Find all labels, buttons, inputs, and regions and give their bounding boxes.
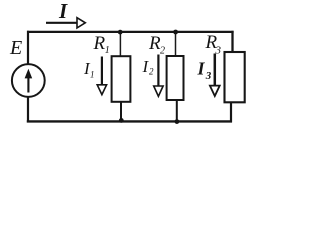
- label I1: [83, 59, 95, 80]
- wire: R2 bottom stub: [176, 100, 178, 123]
- wire: R3 bottom stub: [230, 101, 232, 122]
- junction dot: top of R1 branch: [118, 30, 123, 35]
- svg-text:2: 2: [160, 46, 165, 57]
- wire: right vertical top stub: [231, 31, 233, 53]
- label R2: [148, 33, 165, 57]
- resistor R2: [167, 56, 184, 100]
- label R1: [93, 33, 110, 56]
- resistor R3: [225, 52, 245, 102]
- voltage source E circle: [12, 64, 45, 97]
- current I1 arrow: [97, 57, 106, 95]
- svg-text:I: I: [58, 0, 68, 23]
- svg-text:R: R: [93, 33, 106, 54]
- current I arrow: [46, 18, 85, 28]
- svg-text:3: 3: [205, 70, 212, 82]
- label R3: [205, 32, 222, 57]
- svg-text:1: 1: [105, 45, 110, 56]
- wire: R1 top stub: [119, 31, 121, 57]
- wire: top horizontal: [27, 31, 234, 33]
- wire: left vertical: [27, 31, 29, 123]
- wire: bottom horizontal: [27, 120, 232, 122]
- svg-text:2: 2: [149, 67, 154, 77]
- wire: R2 top stub: [175, 31, 177, 57]
- wire: R1 bottom stub: [120, 102, 122, 122]
- label I3: [197, 59, 212, 83]
- svg-text:1: 1: [90, 70, 95, 80]
- svg-text:E: E: [9, 37, 22, 59]
- current I3 arrow: [210, 54, 220, 97]
- current I2 arrow: [154, 55, 163, 97]
- junction dot: bottom of R2 branch: [175, 119, 180, 124]
- label I2: [142, 57, 155, 77]
- voltage source E arrow: [25, 69, 33, 93]
- junction dot: bottom of R1 branch: [119, 118, 124, 123]
- svg-text:I: I: [197, 59, 206, 79]
- junction dot: top of R2 branch: [173, 30, 178, 35]
- resistor R1: [112, 56, 131, 102]
